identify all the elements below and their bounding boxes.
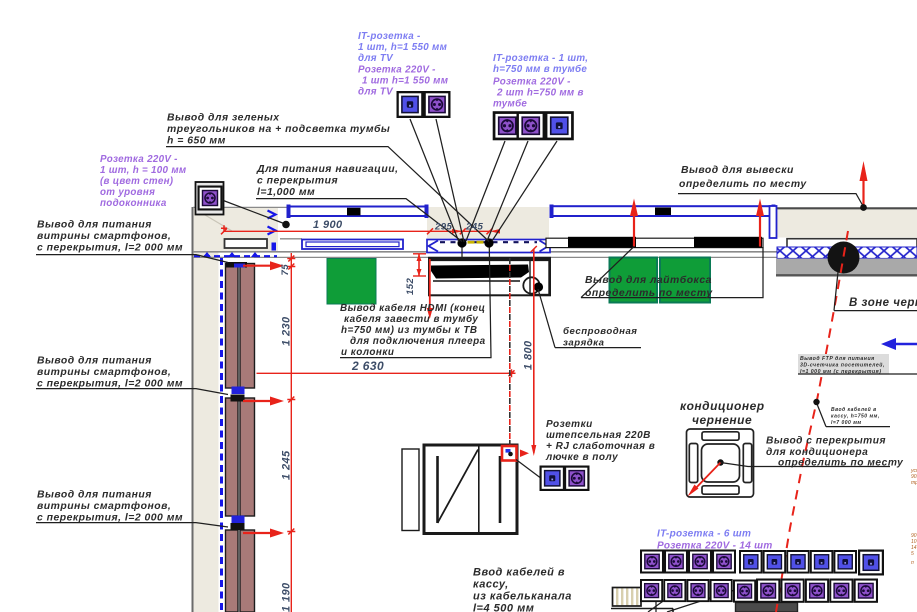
cash zone socket upper: single IT — [859, 551, 883, 575]
svg-text:от уровня: от уровня — [100, 187, 155, 198]
glazing crosshatch band — [777, 247, 917, 258]
svg-text:1 900: 1 900 — [313, 219, 343, 231]
svg-text:с перекрытия, l=2 000 мм: с перекрытия, l=2 000 мм — [37, 513, 183, 524]
svg-text:с перекрытия, l=2 000 мм: с перекрытия, l=2 000 мм — [37, 379, 183, 390]
blue partition band 1 — [288, 207, 427, 217]
svg-text:лючке в полу: лючке в полу — [545, 452, 618, 463]
red cable arrow down into cabinet — [429, 259, 431, 309]
svg-text:Вывод с перекрытия: Вывод с перекрытия — [766, 436, 886, 447]
wireless charger circle — [523, 277, 539, 293]
svg-text:треугольников на + подсветка т: треугольников на + подсветка тумбы — [167, 123, 390, 135]
svg-text:1 шт h=1 550 мм: 1 шт h=1 550 мм — [362, 76, 449, 87]
svg-text:и колонки: и колонки — [341, 347, 394, 358]
blue direction arrow — [881, 338, 917, 350]
cash zone socket row lower: 5x 220V right — [757, 580, 779, 602]
svg-text:152: 152 — [405, 278, 416, 295]
leader sign label — [678, 194, 863, 206]
svg-text:1 800: 1 800 — [523, 340, 535, 370]
wall face line 2 — [193, 256, 790, 258]
blue dashed wall line horizontal with triangles — [194, 255, 277, 257]
svg-text:определить по месту: определить по месту — [585, 288, 713, 299]
TV cabinet blue track band — [427, 240, 550, 253]
counter diagonal — [438, 450, 479, 524]
air conditioner unit — [687, 429, 754, 497]
svg-text:с перекрытия, l=2 000 мм: с перекрытия, l=2 000 мм — [37, 243, 183, 254]
junction dot B — [484, 238, 493, 247]
svg-text:кабеля завести в тумбу: кабеля завести в тумбу — [344, 314, 478, 325]
socket pair for TV (IT + 220V) — [398, 92, 423, 117]
svg-text:определить по месту: определить по месту — [679, 179, 807, 190]
svg-text:2 шт h=750 мм в: 2 шт h=750 мм в — [496, 88, 584, 99]
dimension line 1900/295/245 — [224, 230, 490, 232]
leader FTP label — [798, 354, 889, 374]
svg-text:295: 295 — [434, 222, 452, 233]
cash zone socket row lower: 5x 220V — [641, 580, 662, 601]
svg-text:IT-розетка - 1 шт,: IT-розетка - 1 шт, — [493, 53, 588, 64]
gray mullion band — [776, 259, 917, 275]
svg-text:IT-розетка - 6 шт: IT-розетка - 6 шт — [657, 529, 751, 540]
svg-text:75: 75 — [280, 264, 291, 276]
lightbox bar 2 — [694, 237, 762, 248]
wall outer edge left — [192, 207, 194, 612]
cash zone socket row upper: 5x IT — [740, 551, 762, 573]
svg-text:витрины смартфонов,: витрины смартфонов, — [37, 230, 171, 242]
corner miter line — [195, 209, 232, 231]
svg-text:Для питания навигации,: Для питания навигации, — [256, 164, 398, 175]
svg-text:кассу, h=750 мм,: кассу, h=750 мм, — [831, 414, 880, 420]
junction dot A — [457, 238, 466, 247]
leader cash cable label — [817, 404, 890, 427]
svg-text:245: 245 — [465, 222, 483, 233]
leader lightbox callout box — [581, 247, 763, 298]
leader zone label — [834, 272, 917, 311]
svg-text:беспроводная: беспроводная — [563, 326, 637, 337]
wall outer edge top-left corner — [193, 206, 287, 208]
svg-text:l=1,000 мм: l=1,000 мм — [257, 187, 315, 198]
svg-text:из кабельканала: из кабельканала — [473, 591, 572, 603]
svg-text:h=750 мм) из тумбы к ТВ: h=750 мм) из тумбы к ТВ — [341, 325, 478, 336]
lightbox thin outline — [546, 238, 763, 247]
svg-text:тр: тр — [911, 480, 917, 486]
TV black bar — [431, 265, 529, 279]
vertical dim line left 75/1230/1245/1190 — [290, 253, 292, 612]
cash zone socket row upper: 4x 220V — [641, 551, 663, 573]
blue dashed wall line vertical — [220, 258, 223, 612]
blue chevrons at corner — [268, 211, 276, 235]
storefront glazing frame right — [787, 239, 917, 276]
smartphone vitrine panel 1 — [226, 264, 255, 389]
leader vitrine text 3 — [36, 523, 228, 527]
svg-text:штепсельная 220В: штепсельная 220В — [546, 430, 651, 441]
wall socket 220V top-left — [196, 182, 224, 215]
svg-text:Ввод кабелей в: Ввод кабелей в — [831, 406, 877, 413]
wall face line 1 — [193, 251, 787, 253]
vitrine feed arrow 3 — [243, 529, 284, 538]
svg-text:l=4 500 мм: l=4 500 мм — [473, 603, 534, 612]
wire stub dot A to cabinet — [461, 248, 463, 260]
leader dot wall socket — [282, 221, 290, 229]
svg-text:кассу,: кассу, — [473, 579, 509, 591]
panel joint 1 socket marks — [232, 387, 245, 395]
svg-text:1 шт, h = 100 мм: 1 шт, h = 100 мм — [100, 165, 187, 176]
svg-text:В зоне черн: В зоне черн — [849, 297, 917, 309]
leader vitrine text 1 — [36, 255, 228, 263]
floor cable channel hatch box — [613, 588, 642, 607]
svg-text:Розетка 220V -: Розетка 220V - — [100, 154, 178, 165]
svg-text:для TV: для TV — [358, 87, 394, 98]
svg-text:витрины смартфонов,: витрины смартфонов, — [37, 500, 171, 512]
panel 1 top cap — [226, 262, 247, 268]
leader HDMI callout — [340, 248, 491, 358]
socket trio in tumba (220V x2 + IT) — [494, 113, 520, 139]
blue partition band 2 — [551, 206, 772, 216]
svg-text:определить по месту: определить по месту — [778, 458, 904, 469]
blue band end box right — [770, 206, 777, 238]
svg-text:Розетка 220V -: Розетка 220V - — [493, 77, 571, 88]
svg-text:зарядка: зарядка — [563, 338, 605, 349]
svg-text:Вывод кабеля HDMI (конец: Вывод кабеля HDMI (конец — [340, 303, 485, 314]
lightbox bar 1 — [568, 237, 636, 248]
leader from socket trio SP2 c — [492, 141, 557, 241]
svg-text:2 630: 2 630 — [351, 359, 384, 373]
leader wall socket — [222, 200, 284, 224]
svg-text:с перекрытия: с перекрытия — [257, 176, 338, 187]
leader floor hatch to sockets — [516, 460, 540, 478]
window sill niche — [225, 239, 268, 248]
svg-text:Розетка 220V -: Розетка 220V - — [358, 65, 436, 76]
svg-text:чернение: чернение — [692, 413, 752, 427]
svg-text:Вывод для питания: Вывод для питания — [37, 490, 152, 501]
svg-text:+ RJ слаботочная в: + RJ слаботочная в — [546, 440, 655, 452]
leader bottom sockets a — [655, 584, 657, 612]
red feed arrow up at lightbox1 — [633, 216, 635, 247]
leader AC label — [721, 463, 891, 467]
leader from socket trio SP2 a — [466, 141, 505, 241]
panel joint 2 socket marks — [232, 516, 245, 524]
svg-text:IT-розетка -: IT-розетка - — [358, 31, 421, 42]
leader from socket pair SP1 a — [410, 119, 459, 242]
wall corner top-left (beige) — [193, 208, 278, 612]
svg-text:п: п — [911, 560, 914, 566]
floor hatch red square — [502, 446, 517, 461]
svg-text:5: 5 — [911, 551, 914, 557]
green display 2 — [610, 258, 658, 303]
leader green triangles label — [166, 147, 489, 242]
leader wireless charger — [538, 289, 641, 348]
svg-text:Вывод для питания: Вывод для питания — [37, 220, 152, 231]
svg-text:Розетки: Розетки — [546, 419, 593, 430]
black mark on band 2 — [655, 208, 671, 216]
AC feed arrow — [693, 463, 721, 492]
navigation panel double rect — [302, 240, 403, 250]
wall face line short — [280, 238, 302, 240]
cash desk dark table — [736, 603, 798, 612]
green display 1 — [327, 259, 376, 305]
svg-text:для подключения плеера: для подключения плеера — [350, 336, 486, 347]
svg-text:1 245: 1 245 — [281, 450, 293, 480]
wall niche beige behind TV cabinet — [427, 207, 549, 239]
svg-text:l=1 000 мм (с перекрытия): l=1 000 мм (с перекрытия) — [800, 369, 881, 375]
smartphone vitrine panel 3 — [226, 530, 255, 612]
cash counter main box — [424, 445, 517, 534]
svg-text:(в цвет стен): (в цвет стен) — [100, 176, 173, 187]
svg-text:1 190: 1 190 — [281, 582, 293, 612]
table edge line — [611, 609, 673, 612]
svg-text:кондиционер: кондиционер — [680, 399, 765, 413]
wall top edge right section — [777, 207, 917, 209]
dim ticks — [221, 225, 227, 234]
dim 2630 horizontal — [257, 372, 512, 374]
svg-text:1 230: 1 230 — [281, 316, 293, 346]
leader from socket pair SP1 b — [436, 119, 464, 242]
red feed arrow up at lightbox2 — [759, 216, 761, 247]
leader bottom sockets c — [667, 589, 738, 612]
TV cabinet — [429, 258, 550, 296]
yellow cable dashes — [468, 241, 475, 244]
cash counter left thin box — [402, 449, 419, 531]
svg-text:h = 650 мм: h = 650 мм — [167, 136, 226, 147]
svg-text:для кондиционера: для кондиционера — [766, 447, 868, 458]
dim 1800 vertical — [533, 249, 535, 453]
leader vitrine text 2 — [36, 389, 228, 395]
leader navigation label — [256, 199, 462, 242]
svg-text:для TV: для TV — [358, 53, 394, 64]
svg-text:Вывод для зеленых: Вывод для зеленых — [167, 113, 280, 124]
svg-text:Вывод FTP для питания: Вывод FTP для питания — [800, 356, 875, 362]
leader from socket trio SP2 b — [487, 141, 528, 241]
socket pair floor hatch (IT + 220V) — [541, 467, 564, 490]
svg-text:1 шт, h=1 550 мм: 1 шт, h=1 550 мм — [358, 42, 448, 53]
svg-text:витрины смартфонов,: витрины смартфонов, — [37, 366, 171, 378]
svg-text:h=750 мм в тумбе: h=750 мм в тумбе — [493, 64, 587, 75]
smartphone vitrine panel 2 — [226, 398, 255, 516]
svg-text:Ввод кабелей в: Ввод кабелей в — [473, 567, 565, 579]
leader bottom sockets b — [648, 591, 677, 612]
black mark on band 1 — [347, 208, 361, 216]
vitrine feed arrow 1 — [243, 261, 284, 270]
red feed arrow up at sign — [862, 181, 864, 205]
svg-text:l=7 000 мм: l=7 000 мм — [831, 420, 862, 426]
svg-text:Розетка 220V - 14 шт: Розетка 220V - 14 шт — [657, 541, 773, 552]
wall top-right beige — [777, 209, 917, 238]
svg-text:Вывод для лайтбокса: Вывод для лайтбокса — [585, 274, 712, 286]
column black circle — [828, 242, 860, 274]
svg-text:подоконника: подоконника — [100, 198, 167, 209]
svg-text:Вывод для питания: Вывод для питания — [37, 356, 152, 367]
green display 3 — [660, 258, 710, 303]
vitrine feed arrow 2 — [243, 397, 284, 406]
dim 152 double arrow — [413, 254, 426, 276]
svg-text:Вывод для вывески: Вывод для вывески — [681, 165, 794, 176]
red dashed cable to floor hatch — [509, 258, 511, 446]
red dashed main cable run — [776, 231, 848, 612]
svg-text:3D-счетчика посетителей,: 3D-счетчика посетителей, — [800, 362, 885, 369]
svg-text:тумбе: тумбе — [493, 99, 527, 110]
